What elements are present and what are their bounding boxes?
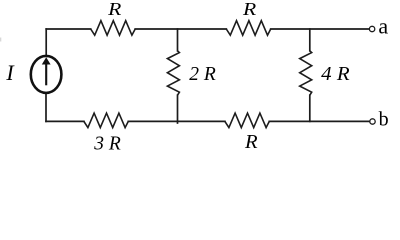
svg-text:I: I bbox=[5, 60, 15, 85]
svg-text:4 R: 4 R bbox=[321, 64, 349, 85]
svg-text:2 R: 2 R bbox=[189, 64, 216, 85]
svg-text:b: b bbox=[379, 109, 389, 131]
svg-text:a: a bbox=[378, 14, 388, 39]
svg-text:3 R: 3 R bbox=[93, 133, 121, 153]
svg-text:R: R bbox=[107, 0, 121, 19]
svg-text:R: R bbox=[242, 0, 256, 19]
svg-text:R: R bbox=[244, 132, 258, 153]
